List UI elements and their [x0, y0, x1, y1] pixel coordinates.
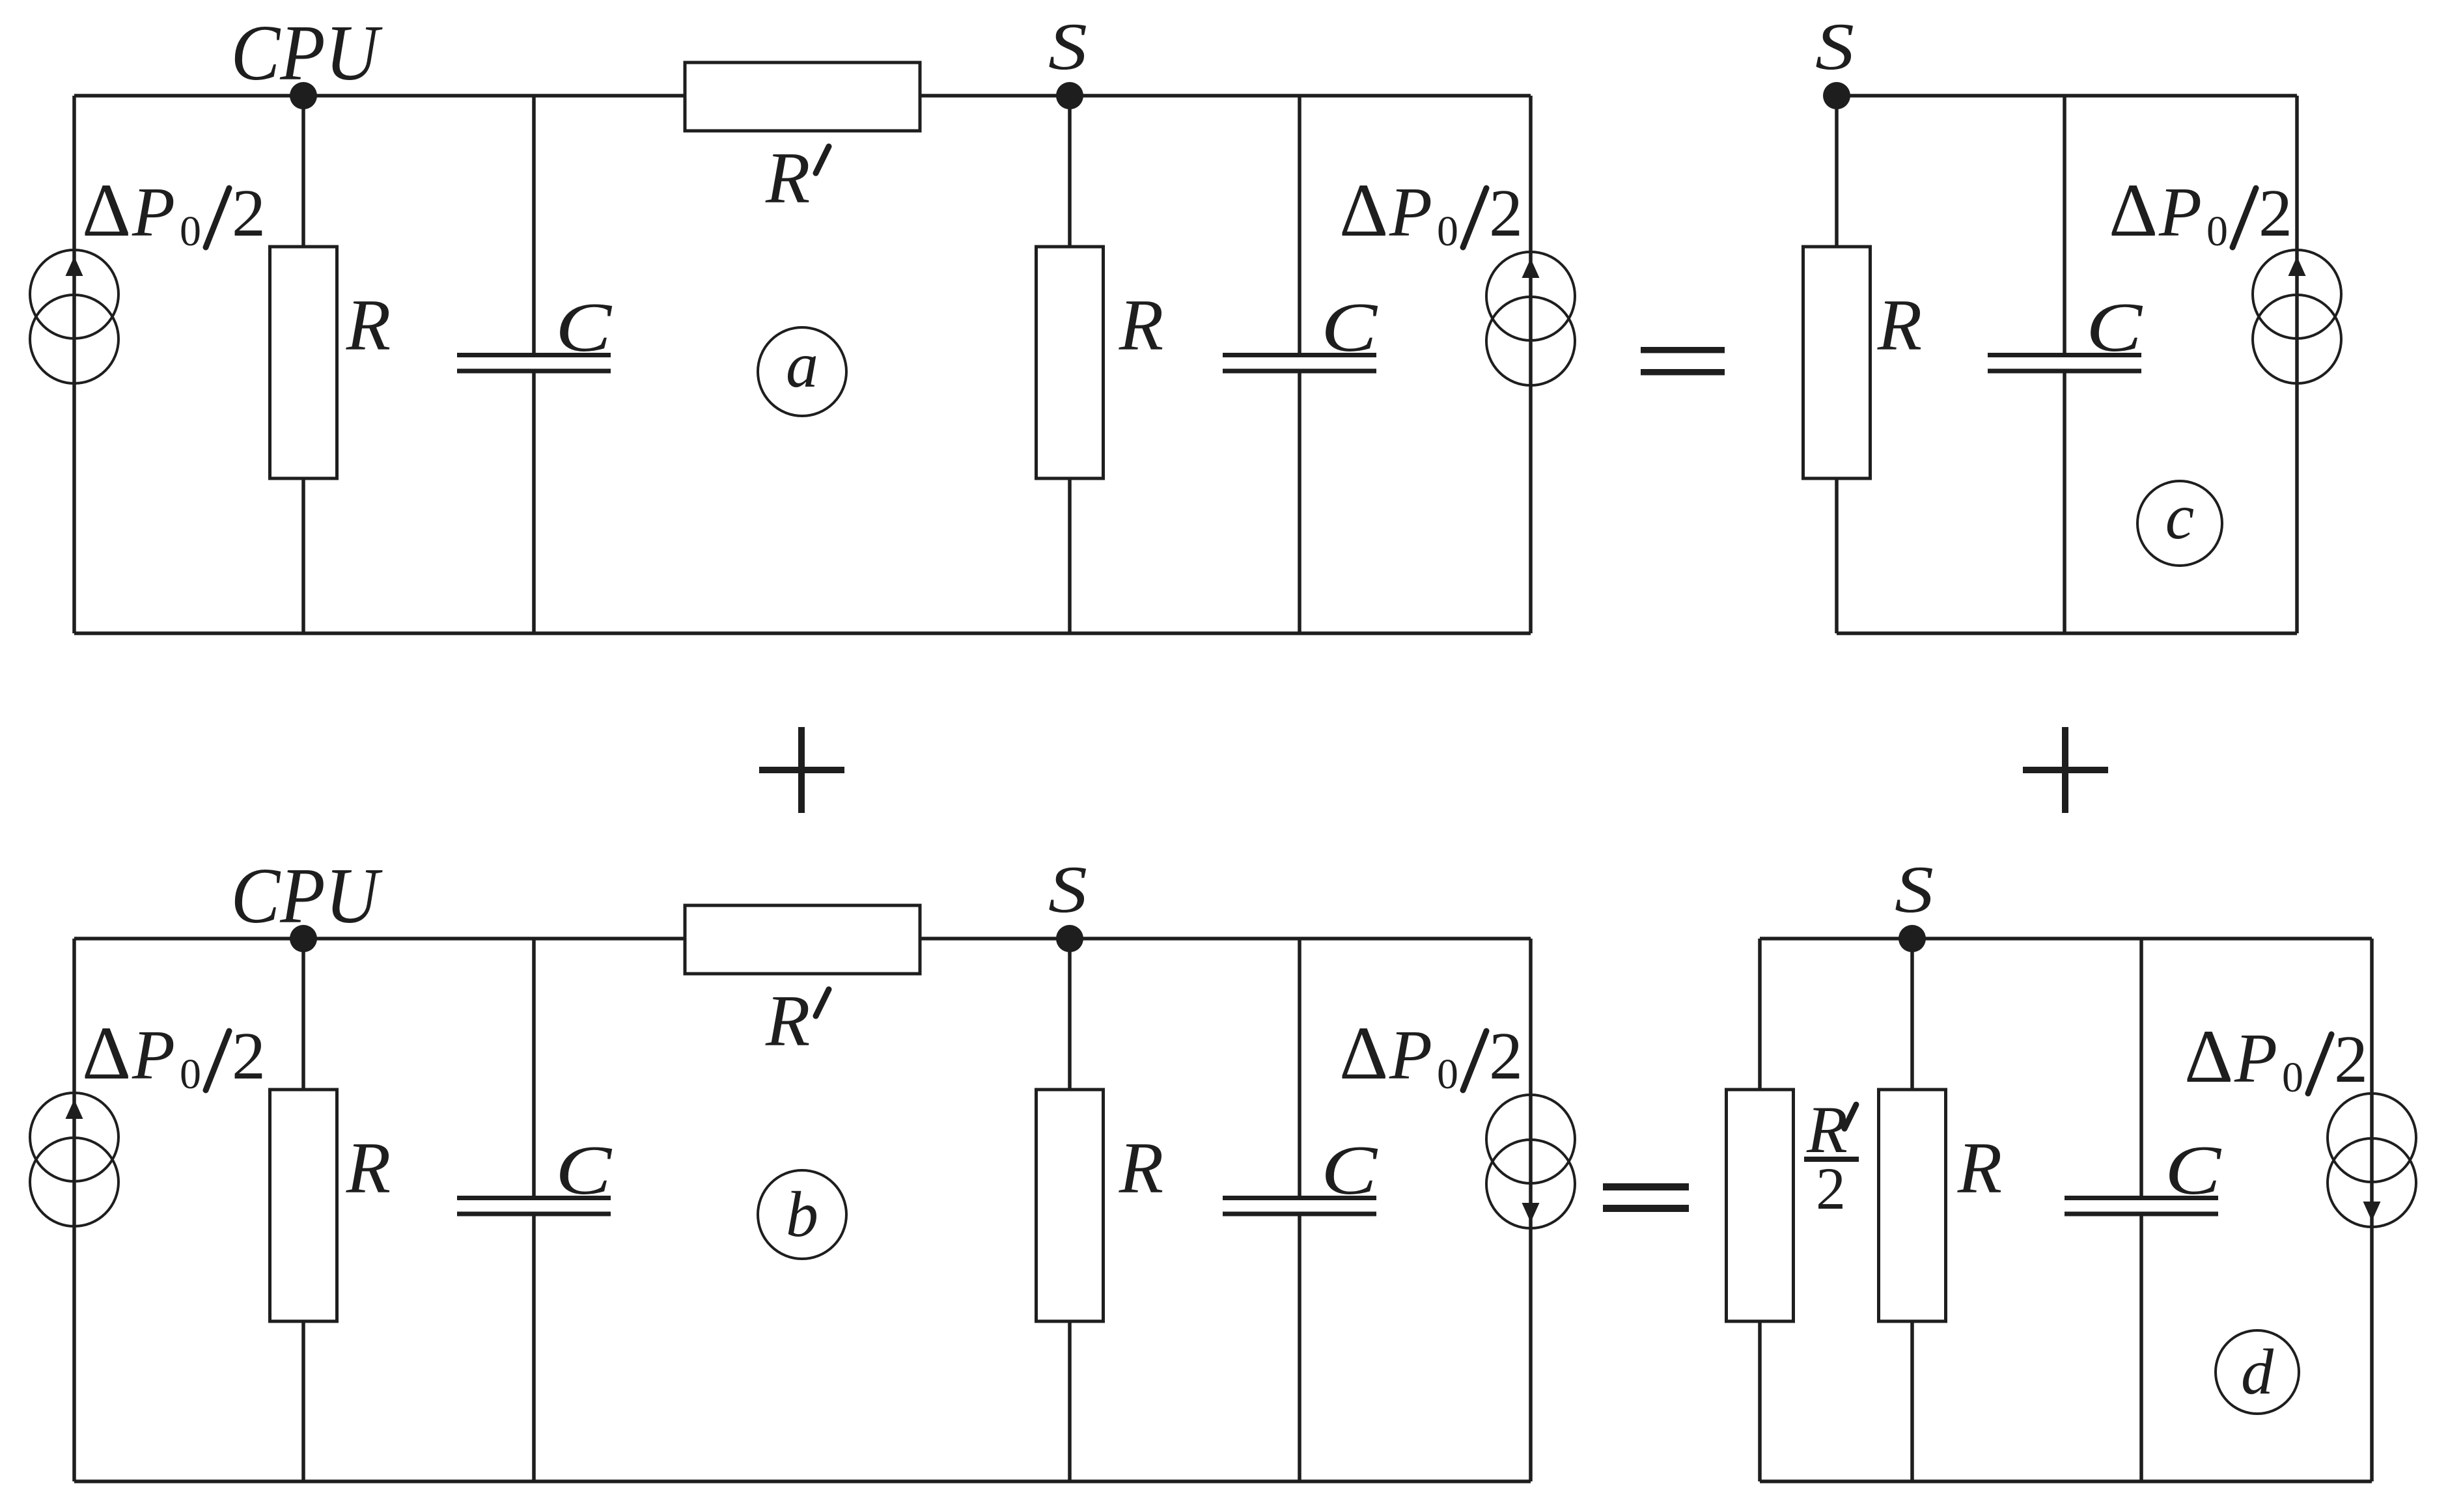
- svg-text:a: a: [786, 329, 818, 401]
- wire: circuit a left branch: [72, 96, 76, 633]
- label R'/2 fraction: [1804, 1093, 1859, 1222]
- label R (circuit d): [1957, 1128, 2002, 1209]
- label dP0/2 for I1: [82, 169, 266, 255]
- label dP0/2 for I3: [82, 1011, 266, 1098]
- svg-text:R: R: [1957, 1128, 2002, 1209]
- svg-text:S: S: [1048, 853, 1087, 927]
- capacitor C2 (circuit b right C): [1223, 1198, 1376, 1215]
- wire: circuit a bottom rail: [74, 631, 1531, 635]
- label dP0/2 (circuit d): [2184, 1015, 2368, 1101]
- wire: circuit a top rail CPU-S: [74, 94, 1531, 98]
- node S (circuit a): [1048, 10, 1087, 109]
- capacitor C (circuit d): [2065, 1198, 2218, 1215]
- wire: circuit a C1 branch: [532, 96, 536, 633]
- label C for circuit b C2: [1321, 1132, 1378, 1209]
- node CPU (circuit b): [231, 852, 383, 952]
- wire: circuit c top rail: [1837, 94, 2297, 98]
- svg-text:d: d: [2241, 1336, 2274, 1408]
- label R for R1: [346, 285, 391, 366]
- svg-text:ΔP02: ΔP02: [1339, 169, 1523, 255]
- label C for C1: [555, 289, 613, 366]
- current source dP0/2 (circuit d, arrow down): [2328, 1093, 2416, 1227]
- svg-text:ΔP02: ΔP02: [2109, 169, 2292, 255]
- node S (circuit c): [1815, 10, 1854, 109]
- svg-text:C: C: [1321, 1132, 1378, 1209]
- wire: circuit b bottom rail: [74, 1479, 1531, 1483]
- label R' for R-prime: [765, 138, 829, 219]
- equals sign between b and d: [1603, 1183, 1689, 1212]
- wire: circuit b R2 branch: [1068, 939, 1072, 1481]
- resistor R' (circuit a, horizontal): [685, 62, 920, 131]
- label C for circuit b C1: [555, 1132, 613, 1209]
- svg-text:R: R: [1119, 1128, 1163, 1209]
- svg-text:C: C: [1321, 289, 1378, 366]
- label (d) circled: [2216, 1330, 2299, 1414]
- svg-text:ΔP02: ΔP02: [82, 169, 266, 255]
- plus sign (left column): [759, 727, 844, 813]
- wire: circuit c right branch: [2295, 96, 2299, 633]
- wire: circuit b left branch: [72, 939, 76, 1481]
- wire: circuit a R1 branch: [301, 96, 305, 633]
- svg-text:C: C: [2086, 289, 2143, 366]
- current source dP0/2 (circuit c): [2253, 250, 2341, 383]
- svg-text:2: 2: [1816, 1155, 1846, 1222]
- svg-text:R: R: [765, 981, 810, 1062]
- current source I4 dP0/2 (circuit b right, arrow down): [1486, 1095, 1575, 1228]
- svg-text:ΔP02: ΔP02: [2184, 1015, 2368, 1101]
- capacitor C1 (circuit b left C): [457, 1198, 611, 1215]
- svg-text:C: C: [555, 1132, 613, 1209]
- current source I3 dP0/2 (circuit b left): [30, 1093, 118, 1226]
- label C (circuit d): [2165, 1132, 2222, 1209]
- resistor R' (circuit b, horizontal): [685, 905, 920, 974]
- resistor R'/2 (circuit d): [1727, 1090, 1794, 1321]
- wire: circuit d top rail: [1760, 937, 2372, 941]
- capacitor C (circuit c): [1988, 355, 2141, 372]
- label R (circuit c): [1877, 285, 1922, 366]
- wire: circuit d bottom rail: [1760, 1479, 2372, 1483]
- svg-text:C: C: [555, 289, 613, 366]
- label (b) circled: [758, 1170, 846, 1259]
- resistor R1 (circuit a left R): [270, 247, 337, 478]
- svg-text:b: b: [786, 1178, 818, 1250]
- node CPU (circuit a): [231, 9, 383, 109]
- svg-text:S: S: [1815, 10, 1854, 84]
- label dP0/2 (circuit c): [2109, 169, 2292, 255]
- resistor R (circuit d): [1879, 1090, 1946, 1321]
- svg-text:CPU: CPU: [231, 852, 383, 940]
- wire: circuit b C1 branch: [532, 939, 536, 1481]
- svg-text:R: R: [346, 285, 391, 366]
- resistor R1 (circuit b left R): [270, 1090, 337, 1321]
- label R for circuit b R1: [346, 1128, 391, 1209]
- wire: circuit d left branch: [1758, 939, 1762, 1481]
- wire: circuit b top rail CPU-S: [74, 937, 1531, 941]
- svg-text:S: S: [1048, 10, 1087, 84]
- svg-text:R: R: [346, 1128, 391, 1209]
- current source I2 dP0/2 (circuit a right): [1486, 252, 1575, 385]
- label dP0/2 for I4: [1339, 1011, 1523, 1098]
- label R for R2: [1119, 285, 1163, 366]
- label R' (circuit b): [765, 981, 829, 1062]
- label (a) circled: [758, 327, 846, 416]
- svg-text:ΔP02: ΔP02: [1339, 1011, 1523, 1098]
- node S (circuit d): [1895, 853, 1934, 952]
- label (c) circled: [2137, 480, 2222, 566]
- wire: circuit d right branch: [2370, 939, 2374, 1481]
- wire: circuit a C2 branch: [1298, 96, 1301, 633]
- plus sign (right column): [2023, 727, 2108, 813]
- label C for C2: [1321, 289, 1378, 366]
- equals sign between a and c: [1641, 347, 1725, 376]
- svg-text:CPU: CPU: [231, 9, 383, 97]
- wire: circuit b C2 branch: [1298, 939, 1301, 1481]
- svg-text:R: R: [1877, 285, 1922, 366]
- resistor R2 (circuit a right R): [1036, 247, 1104, 478]
- svg-text:C: C: [2165, 1132, 2222, 1209]
- wire: circuit a R2 branch: [1068, 96, 1072, 633]
- label R for circuit b R2: [1119, 1128, 1163, 1209]
- svg-text:c: c: [2165, 480, 2194, 553]
- resistor R (circuit c): [1803, 247, 1871, 478]
- wire: circuit a right branch: [1529, 96, 1533, 633]
- wire: circuit d R branch: [1910, 939, 1914, 1481]
- svg-text:R: R: [1119, 285, 1163, 366]
- current source I1 dP0/2 (circuit a left): [30, 250, 118, 383]
- resistor R2 (circuit b right R): [1036, 1090, 1104, 1321]
- node S (circuit b): [1048, 853, 1087, 952]
- capacitor C1 (circuit a left C): [457, 355, 611, 372]
- svg-text:R: R: [765, 138, 810, 219]
- label dP0/2 for I2: [1339, 169, 1523, 255]
- svg-text:S: S: [1895, 853, 1934, 927]
- wire: circuit b R1 branch: [301, 939, 305, 1481]
- wire: circuit d C branch: [2139, 939, 2143, 1481]
- capacitor C2 (circuit a right C): [1223, 355, 1376, 372]
- wire: circuit b right branch: [1529, 939, 1533, 1481]
- wire: circuit c C branch: [2063, 96, 2066, 633]
- label C (circuit c): [2086, 289, 2143, 366]
- svg-text:ΔP02: ΔP02: [82, 1011, 266, 1098]
- wire: circuit c R branch: [1835, 96, 1839, 633]
- wire: circuit c bottom rail: [1837, 631, 2297, 635]
